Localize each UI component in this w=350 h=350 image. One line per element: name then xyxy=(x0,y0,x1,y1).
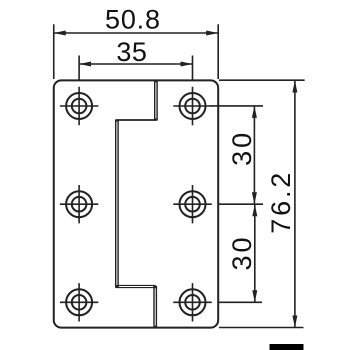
dim 50.8 extension lines xyxy=(54,24,218,79)
dim 50.8 line xyxy=(54,32,218,34)
hole bottom-left xyxy=(60,283,98,321)
plate outline xyxy=(54,80,218,327)
scale bar black xyxy=(270,344,304,350)
dim 30 top leader at top hole xyxy=(211,105,264,107)
hole middle-right xyxy=(173,185,211,223)
dim 35 extension lines xyxy=(79,56,192,80)
svg-text:30: 30 xyxy=(227,238,257,271)
dim 30 bottom arrow down xyxy=(252,290,257,302)
step vertical bands xyxy=(117,81,156,328)
hole middle-left xyxy=(60,185,98,223)
step / joggle base path xyxy=(117,81,156,328)
dim 35 arrow left xyxy=(79,62,91,67)
step bottom horizontal band xyxy=(115,285,155,288)
dim 76.2 extension top xyxy=(219,79,305,81)
dim 30 top arrow down xyxy=(252,192,257,204)
hole top-left xyxy=(60,87,98,125)
dim 35 line xyxy=(79,63,192,65)
dim 50.8 arrow left xyxy=(54,31,66,36)
hole top-right xyxy=(173,87,211,125)
dim 50.8 arrow right xyxy=(206,31,218,36)
svg-text:50.8: 50.8 xyxy=(105,4,160,34)
dim 30 top arrow up xyxy=(252,106,257,118)
svg-text:76.2: 76.2 xyxy=(266,173,296,234)
hole bottom-right xyxy=(173,283,211,321)
dim 76.2 arrow down xyxy=(292,316,297,328)
dim 30 bottom line xyxy=(254,204,256,302)
dim 76.2 extension bottom xyxy=(219,327,304,329)
svg-text:35: 35 xyxy=(116,37,147,67)
dim 76.2 line xyxy=(294,81,296,328)
dim 30 bottom leader xyxy=(218,301,262,303)
dim 30 top line xyxy=(253,106,255,204)
dim 76.2 arrow up xyxy=(292,81,297,93)
svg-text:30: 30 xyxy=(227,133,257,166)
step white cores xyxy=(117,82,156,325)
dim 30 middle leader xyxy=(218,203,263,205)
dim 30 bottom arrow up xyxy=(252,204,257,216)
dim 35 arrow right xyxy=(181,62,193,67)
